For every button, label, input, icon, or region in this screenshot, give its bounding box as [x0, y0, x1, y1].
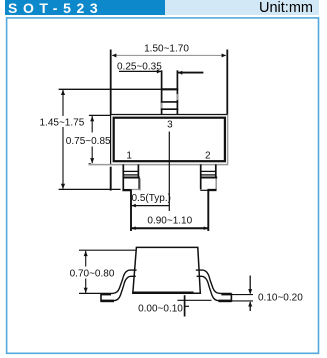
svg-text:0.75~0.85: 0.75~0.85 — [66, 136, 111, 147]
svg-text:3: 3 — [167, 119, 173, 130]
left lead — [101, 270, 137, 293]
dim 0.25~0.35 right leader — [178, 72, 204, 74]
dim 0.10~0.20 lower extension — [232, 300, 254, 302]
package body outer outline — [110, 114, 227, 116]
pin 3 tab — [161, 70, 163, 114]
dim 0.70~0.80 dimension line — [85, 251, 87, 267]
package body inner outline — [114, 118, 225, 162]
svg-text:0.5(Typ.): 0.5(Typ.) — [132, 193, 171, 204]
dim 1.45~1.75 dimension line — [62, 90, 64, 116]
dim 0.70~0.80 top extension — [79, 249, 137, 251]
dim 1.45~1.75 bottom extension — [59, 188, 121, 190]
pin 2 — [200, 164, 202, 189]
dim 0.5(Typ.) extension (pin1 center) — [130, 191, 132, 231]
dim 0.75~0.85 dimension line — [91, 116, 93, 133]
dim 0.75~0.85 bottom extension — [89, 163, 91, 165]
pin 3 tip line — [161, 88, 178, 90]
svg-text:2: 2 — [205, 151, 211, 162]
svg-text:1.50~1.70: 1.50~1.70 — [144, 43, 189, 54]
dim 0.70~0.80 bottom extension — [79, 292, 101, 294]
svg-text:0.00~0.10: 0.00~0.10 — [138, 304, 183, 315]
body left edge extension below body — [110, 167, 112, 191]
dim 0.00~0.10 vertical line — [184, 295, 186, 316]
dim 0.90~1.10 extension (pin2 center) — [207, 191, 209, 231]
pin 3 bend line 1 — [161, 101, 178, 103]
dim 0.00~0.10 tick — [185, 305, 189, 307]
svg-text:0.10~0.20: 0.10~0.20 — [258, 293, 303, 304]
svg-text:1.45~1.75: 1.45~1.75 — [40, 117, 85, 128]
right lead — [196, 270, 232, 293]
dim 0.10~0.20 lower leader with arrow — [249, 302, 251, 311]
package body (side) — [133, 247, 201, 293]
dim 0.25~0.35 left leader — [119, 70, 161, 72]
dim 1.45~1.75 top extension — [59, 88, 161, 90]
dim 0.00~0.10 seating line — [177, 299, 211, 301]
dim 0.10~0.20 upper leader with arrow — [249, 276, 251, 294]
svg-text:1: 1 — [126, 151, 132, 162]
dim 0.10~0.20 upper extension — [232, 294, 254, 296]
dim 1.50~1.70 dimension line — [112, 54, 226, 56]
pin 3 edge gray fragments — [176, 94, 178, 100]
dim 0.75~0.85 top extension — [89, 114, 110, 116]
dim 0.5(Typ.) leader — [131, 205, 169, 207]
svg-text:0.70~0.80: 0.70~0.80 — [70, 268, 115, 279]
pin 3 bend line 2 — [161, 108, 178, 110]
svg-text:0.90~1.10: 0.90~1.10 — [147, 215, 192, 226]
dim 1.50~1.70 extension line right — [226, 50, 228, 115]
dim 1.50~1.70 extension line left — [110, 50, 112, 115]
pin 1 — [122, 164, 124, 189]
header unit label — [165, 0, 319, 15]
header title bar — [5, 0, 165, 15]
package center line — [168, 132, 170, 212]
package body bottom thick edge — [134, 292, 194, 294]
dim 0.90~1.10 dimension line — [131, 227, 208, 229]
